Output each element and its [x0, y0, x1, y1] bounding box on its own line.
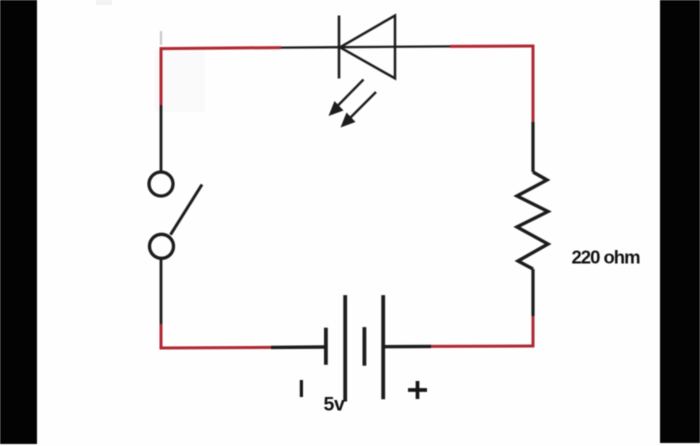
- wire: bottom-left red vertical segment: [160, 324, 163, 350]
- svg-text:5v: 5v: [324, 394, 345, 416]
- wire: top black segment to LED: [281, 46, 339, 49]
- svg-text:220 ohm: 220 ohm: [572, 247, 641, 268]
- wire: left black segment below switch: [160, 259, 163, 325]
- battery BT1 negative short plate (left cell): [324, 328, 328, 365]
- wire: battery right black lead: [385, 345, 431, 349]
- wire: top-right red vertical segment: [532, 45, 535, 122]
- LED D1 cathode bar: [338, 16, 341, 79]
- wire: top-right red horizontal segment: [450, 45, 534, 48]
- LED light arrow 2 head: [341, 113, 356, 128]
- resistor R1 zigzag body: [517, 172, 548, 269]
- wire: top-left red vertical segment: [160, 47, 163, 105]
- wire: battery left black lead: [271, 345, 325, 349]
- faint smudge top edge: [96, 0, 112, 5]
- wire: bottom-right red horizontal segment: [431, 345, 534, 348]
- wire: right black segment above resistor: [531, 122, 534, 172]
- switch S1 bottom terminal circle: [150, 234, 174, 258]
- LED light arrow 1 shaft: [337, 80, 364, 108]
- wire: bottom-right red vertical segment: [532, 316, 535, 347]
- battery BT1 positive long plate (left cell): [343, 295, 347, 401]
- wire: top-left red horizontal segment: [160, 48, 281, 49]
- wire: top black segment LED to red: [339, 45, 450, 48]
- switch S1 blade: [171, 185, 203, 235]
- battery BT1 negative short plate (right cell): [362, 327, 366, 366]
- right black pillarbox bar: [660, 0, 700, 443]
- wire: bottom-left red horizontal segment: [160, 346, 271, 350]
- label: battery negative terminal "I": [300, 380, 303, 397]
- left black pillarbox bar: [0, 0, 37, 444]
- LED light arrow 2 shaft: [349, 92, 377, 120]
- faint erased area near top-left corner: [155, 50, 205, 112]
- LED D1 triangle: [340, 16, 395, 79]
- battery BT1 positive long plate (right cell): [381, 295, 385, 399]
- switch S1 top terminal circle: [149, 172, 173, 196]
- wire: right black segment below resistor: [531, 269, 534, 316]
- stray gray tick above top-left corner: [160, 31, 162, 45]
- wire: left black segment above switch: [160, 105, 163, 173]
- LED light arrow 1 head: [329, 101, 344, 116]
- label: battery positive terminal "+": [408, 388, 427, 392]
